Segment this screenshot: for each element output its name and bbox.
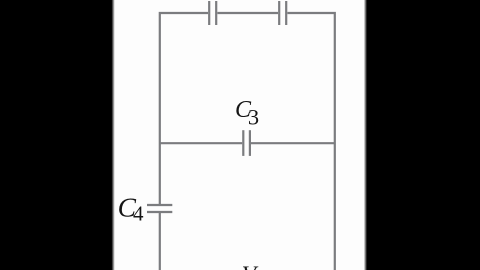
svg-text:3: 3 [248, 105, 259, 130]
svg-text:4: 4 [133, 202, 144, 226]
